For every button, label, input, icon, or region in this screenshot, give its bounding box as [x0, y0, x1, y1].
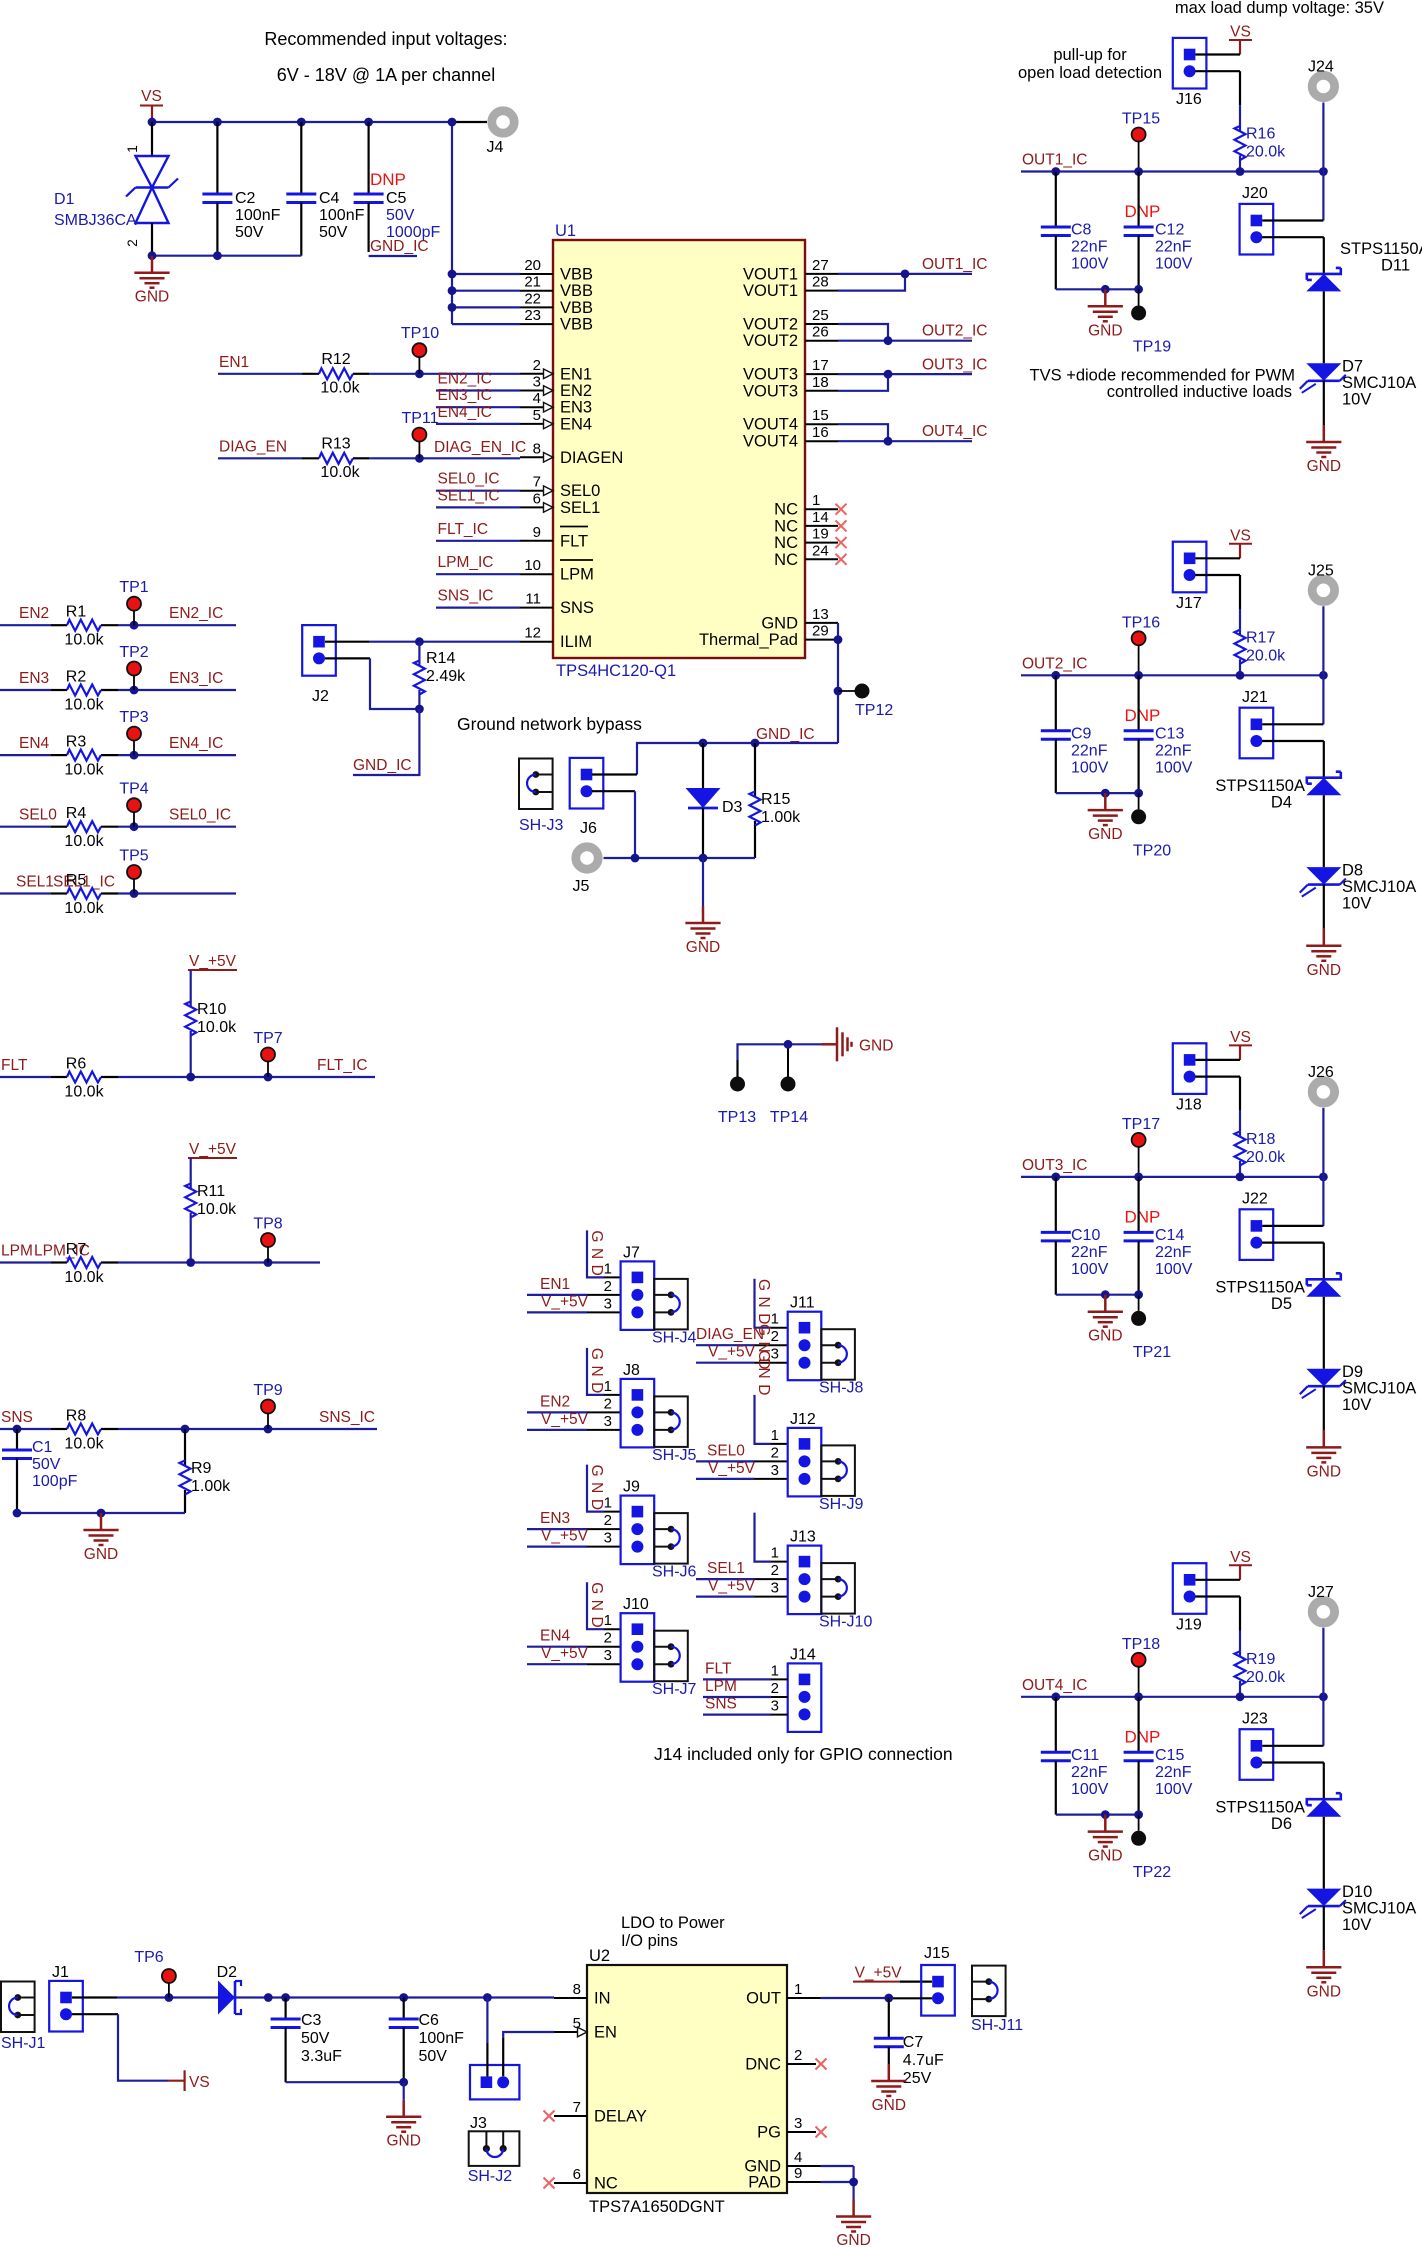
svg-text:10V: 10V: [1342, 391, 1371, 409]
U1 pin 18 VOUT3: [743, 374, 838, 401]
U1 pin 17 VOUT3: [743, 357, 838, 384]
svg-text:OUT1_IC: OUT1_IC: [922, 256, 987, 273]
svg-text:SEL0: SEL0: [19, 807, 57, 824]
annotation TVS diode recommendation: [1030, 367, 1295, 402]
power flag VS (J19): [1229, 1549, 1252, 1580]
svg-text:J5: J5: [573, 878, 590, 895]
svg-text:20.0k: 20.0k: [1246, 144, 1286, 161]
svg-text:FLT_IC: FLT_IC: [317, 1057, 368, 1074]
connector J3: [468, 2115, 520, 2185]
svg-text:D5: D5: [1271, 1295, 1292, 1313]
svg-text:TP11: TP11: [401, 410, 438, 427]
wire J20 pin2 to D11: [1262, 237, 1324, 274]
wire EN3 to J9 pin2: [527, 1528, 621, 1530]
wire net OUT3_IC: [1021, 1173, 1328, 1182]
svg-text:controlled inductive loads: controlled inductive loads: [1107, 383, 1292, 401]
connector J11: [771, 1295, 822, 1381]
svg-text:LPM: LPM: [1, 1243, 33, 1260]
svg-text:TP14: TP14: [770, 1109, 808, 1126]
capacitor C2: [202, 122, 280, 256]
svg-text:R9: R9: [191, 1460, 212, 1477]
wire J6 pin1: [592, 773, 637, 775]
svg-text:OUT3_IC: OUT3_IC: [1022, 1157, 1087, 1174]
svg-text:3: 3: [604, 1413, 612, 1430]
svg-text:J1: J1: [52, 1964, 69, 1981]
net label OUT3_IC: [1022, 1157, 1087, 1174]
shunt SH-J10: [819, 1563, 872, 1631]
svg-text:EN4_IC: EN4_IC: [438, 404, 492, 421]
svg-text:D11: D11: [1381, 257, 1410, 275]
svg-text:SEL0_IC: SEL0_IC: [438, 471, 500, 488]
test point TP8: [253, 1216, 282, 1263]
svg-text:EN3: EN3: [540, 1510, 570, 1527]
svg-text:TP15: TP15: [1122, 111, 1160, 128]
svg-text:13: 13: [812, 606, 829, 623]
svg-text:100V: 100V: [1071, 759, 1109, 776]
svg-text:GND: GND: [135, 289, 169, 306]
svg-text:NC: NC: [774, 551, 798, 569]
svg-text:V_+5V: V_+5V: [541, 1293, 589, 1310]
svg-text:22nF: 22nF: [1155, 1764, 1192, 1781]
ground GND (caps ch2): [1088, 793, 1123, 843]
svg-text:GND: GND: [1088, 1848, 1122, 1865]
wire SEL0 row: [0, 822, 236, 831]
diode D5 STPS1150A: [1215, 1273, 1341, 1313]
svg-text:FLT: FLT: [705, 1660, 732, 1677]
wire OUT to J15 pin2: [821, 1994, 933, 2003]
svg-text:DNP: DNP: [1125, 202, 1161, 221]
power label V_+5V (J8): [541, 1411, 589, 1428]
shunt SH-J1: [1, 1982, 46, 2053]
svg-text:VBB: VBB: [560, 266, 593, 284]
U1 pin 3 EN2: [520, 374, 592, 401]
svg-text:J27: J27: [1308, 1584, 1334, 1601]
wire net to J23 pin1: [1322, 1697, 1324, 1746]
U1 pin 10 LPM: [520, 557, 594, 584]
svg-text:1.00k: 1.00k: [191, 1478, 231, 1495]
svg-text:LDO to Power: LDO to Power: [621, 1914, 725, 1932]
svg-text:50V: 50V: [419, 2048, 448, 2065]
svg-text:PG: PG: [757, 2124, 781, 2142]
wire cap gnd bus ch3: [1056, 1290, 1143, 1299]
svg-text:VS: VS: [1230, 24, 1251, 41]
svg-text:J20: J20: [1242, 185, 1268, 202]
net label FLT_IC: [436, 521, 520, 541]
svg-text:GND: GND: [686, 939, 720, 956]
capacitor C5 (DNP): [354, 122, 441, 252]
wire GND to J8 pin1: [587, 1348, 621, 1395]
diode D10 SMCJ10A: [1300, 1883, 1416, 1934]
wire EN4 to J10 pin2: [527, 1646, 621, 1648]
no-connect X pin 24: [836, 554, 847, 565]
U1 pin 20 VBB: [520, 257, 593, 284]
svg-text:R17: R17: [1246, 629, 1275, 646]
svg-text:TP12: TP12: [855, 702, 893, 719]
annotation ground network bypass: [457, 714, 642, 734]
net label SEL1_IC: [436, 487, 520, 507]
svg-text:EN3: EN3: [19, 670, 49, 687]
test point TP14: [770, 1077, 808, 1127]
power flag VS (J17): [1229, 527, 1252, 558]
svg-text:C2: C2: [235, 190, 256, 207]
svg-text:100V: 100V: [1155, 1781, 1193, 1798]
wire SEL1 row: [0, 889, 236, 898]
wire V_+5V to J10 pin3: [527, 1663, 621, 1665]
svg-text:3: 3: [604, 1295, 612, 1312]
svg-text:3: 3: [771, 1462, 779, 1479]
svg-text:TP3: TP3: [119, 709, 148, 726]
net label GND (above J9): [588, 1465, 605, 1516]
resistor R15: [750, 743, 802, 858]
test point TP12: [838, 684, 893, 720]
wire D5 to D9: [1323, 1297, 1325, 1369]
svg-text:V_+5V: V_+5V: [541, 1528, 589, 1545]
svg-text:24: 24: [812, 542, 829, 559]
connector J6: [570, 758, 604, 837]
wire net OUT3_IC: [838, 370, 972, 391]
svg-text:SH-J5: SH-J5: [652, 1447, 697, 1464]
wire J1 pin2 to VS: [72, 2014, 185, 2081]
svg-text:TP4: TP4: [119, 781, 148, 798]
svg-text:SH-J8: SH-J8: [819, 1380, 864, 1397]
svg-text:IN: IN: [594, 1990, 611, 2008]
ground GND (ch3): [1306, 1430, 1341, 1480]
wire net OUT2_IC: [838, 324, 972, 345]
svg-text:GND: GND: [1307, 458, 1341, 475]
wire D7 to gnd: [1323, 381, 1325, 425]
connector J16: [1173, 38, 1207, 108]
wire EN2 row: [0, 621, 236, 630]
svg-text:D1: D1: [54, 191, 75, 208]
svg-text:R2: R2: [66, 669, 87, 686]
resistor R7: [64, 1241, 104, 1286]
U1 pin 4 EN3: [520, 390, 592, 417]
svg-text:C12: C12: [1155, 222, 1184, 239]
wire J1 pin1 to IN: [72, 1993, 554, 2002]
svg-text:J16: J16: [1176, 91, 1202, 108]
svg-text:V_+5V: V_+5V: [541, 1645, 589, 1662]
svg-text:2: 2: [771, 1562, 779, 1579]
svg-text:4: 4: [794, 2149, 802, 2166]
svg-text:R6: R6: [66, 1056, 87, 1073]
svg-text:1: 1: [771, 1545, 779, 1562]
svg-text:C1: C1: [32, 1439, 53, 1456]
connector J21: [1240, 689, 1274, 759]
svg-text:2: 2: [794, 2047, 802, 2064]
resistor R17: [1235, 629, 1287, 675]
svg-text:22nF: 22nF: [1071, 1764, 1108, 1781]
U1 pin 25 VOUT2: [743, 307, 838, 334]
svg-text:4.7uF: 4.7uF: [903, 2052, 944, 2069]
svg-text:DNP: DNP: [1125, 706, 1161, 725]
svg-text:NC: NC: [774, 501, 798, 519]
ground GND: [134, 256, 169, 306]
svg-text:3: 3: [771, 1580, 779, 1597]
svg-text:pull-up for: pull-up for: [1053, 46, 1127, 64]
capacitor C6: [389, 1998, 464, 2083]
annotation LDO to Power I/O pins: [621, 1914, 725, 1950]
capacitor C1: [2, 1429, 78, 1513]
svg-text:3: 3: [794, 2115, 802, 2132]
net label EN4_IC: [436, 404, 520, 424]
svg-text:SEL0: SEL0: [707, 1442, 745, 1459]
connector J23: [1240, 1710, 1274, 1779]
wire J22 pin1 lead: [1262, 1225, 1323, 1227]
svg-text:DIAG_EN: DIAG_EN: [696, 1326, 764, 1343]
ground GND (ch1): [1306, 425, 1341, 475]
svg-text:VBB: VBB: [560, 282, 593, 300]
svg-text:SH-J4: SH-J4: [652, 1329, 697, 1346]
wire LPM row: [0, 1258, 320, 1267]
svg-text:7: 7: [573, 2099, 581, 2116]
diode D3: [686, 743, 743, 858]
wire D11 to D7: [1323, 291, 1325, 363]
svg-text:VS: VS: [189, 2074, 210, 2091]
net label GND (above J8): [588, 1348, 605, 1399]
svg-text:2: 2: [604, 1395, 612, 1412]
svg-text:SH-J2: SH-J2: [468, 2168, 513, 2185]
svg-text:OUT: OUT: [746, 1990, 781, 2008]
svg-text:STPS1150A: STPS1150A: [1215, 777, 1305, 795]
net label EN3_IC: [436, 387, 520, 407]
wire EN3 row: [0, 686, 236, 695]
capacitor C15 (DNP): [1124, 1697, 1193, 1815]
net label EN2: [540, 1393, 570, 1410]
ground GND (C7): [871, 2064, 906, 2114]
net label EN2_IC: [169, 605, 223, 622]
power label V_+5V (J15): [853, 1965, 932, 1982]
svg-text:V_+5V: V_+5V: [189, 1141, 237, 1158]
svg-text:GND: GND: [1088, 322, 1122, 339]
svg-text:22nF: 22nF: [1071, 239, 1108, 256]
svg-text:SMBJ36CA: SMBJ36CA: [54, 212, 137, 229]
svg-text:GND: GND: [1307, 1983, 1341, 2000]
net label GND rotated (J11 area): [755, 1279, 772, 1401]
svg-text:NC: NC: [774, 517, 798, 535]
U1 pin 5 EN4: [520, 407, 592, 434]
svg-text:29: 29: [812, 623, 829, 640]
svg-text:GND: GND: [84, 1546, 118, 1563]
svg-text:D9: D9: [1342, 1363, 1363, 1381]
U1 pin 21 VBB: [520, 274, 593, 301]
ground GND (caps ch4): [1088, 1815, 1123, 1865]
capacitor C7: [874, 1998, 944, 2087]
wire SEL0 to J12 pin2: [696, 1460, 788, 1462]
svg-text:J15: J15: [924, 1945, 950, 1962]
svg-text:23: 23: [524, 307, 541, 324]
svg-text:OUT3_IC: OUT3_IC: [922, 357, 987, 374]
U1 pin 12 ILIM: [520, 625, 592, 652]
svg-text:EN4: EN4: [560, 415, 592, 433]
test point TP19: [1131, 289, 1171, 355]
test point TP3: [119, 709, 148, 755]
wire D4 to D8: [1323, 795, 1325, 867]
U1 pin 28 VOUT1: [743, 274, 838, 301]
resistor R19: [1235, 1651, 1287, 1697]
wire GND to J11 pin1: [755, 1279, 788, 1328]
svg-text:SMCJ10A: SMCJ10A: [1342, 1899, 1416, 1917]
wire C3/C6 gnd bus: [286, 2078, 409, 2100]
svg-text:J3: J3: [470, 2115, 487, 2132]
wire J2 pin2: [325, 658, 419, 709]
connector EN jumper: [470, 2065, 519, 2099]
wire J26 to net: [1322, 1108, 1324, 1177]
svg-text:OUT2_IC: OUT2_IC: [1022, 655, 1087, 672]
svg-text:C15: C15: [1155, 1747, 1184, 1764]
U1 pin 2 EN1: [520, 357, 592, 384]
test point TP16: [1122, 614, 1160, 675]
capacitor C10: [1041, 1177, 1109, 1295]
net label LPM_IC: [436, 554, 520, 574]
wire J20 pin1 lead: [1262, 219, 1323, 221]
svg-text:27: 27: [812, 257, 829, 274]
svg-text:EN1: EN1: [219, 354, 249, 371]
capacitor C8: [1041, 172, 1109, 290]
net label GND (above J10): [588, 1582, 605, 1633]
svg-text:SEL0_IC: SEL0_IC: [169, 807, 231, 824]
svg-text:OUT2_IC: OUT2_IC: [922, 323, 987, 340]
test point TP18: [1122, 1636, 1160, 1697]
connector J2: [302, 625, 336, 705]
svg-text:GND_IC: GND_IC: [756, 726, 815, 743]
svg-text:3: 3: [771, 1698, 779, 1715]
wire V_+5V to J13 pin3: [696, 1595, 788, 1597]
svg-text:C9: C9: [1071, 725, 1092, 742]
svg-text:7: 7: [533, 474, 541, 491]
svg-text:J17: J17: [1176, 595, 1202, 612]
ground GND (bypass): [685, 858, 720, 956]
svg-text:DIAG_EN_IC: DIAG_EN_IC: [434, 439, 526, 456]
test point TP7: [253, 1030, 282, 1077]
resistor R4: [64, 805, 104, 850]
svg-text:U1: U1: [555, 222, 576, 240]
ground GND (C3/C6): [386, 2100, 421, 2150]
wire J24 to net: [1322, 103, 1324, 172]
svg-text:D6: D6: [1271, 1815, 1292, 1833]
svg-text:10.0k: 10.0k: [64, 833, 104, 850]
wire J19 pin2 to R: [1195, 1597, 1240, 1652]
svg-text:SH-J11: SH-J11: [971, 2017, 1023, 2034]
resistor R9: [180, 1429, 232, 1513]
wire net OUT4_IC: [838, 424, 972, 445]
wire GND to J9 pin1: [587, 1465, 621, 1512]
capacitor C13 (DNP): [1124, 675, 1193, 793]
svg-text:R8: R8: [66, 1408, 87, 1425]
svg-text:10: 10: [524, 557, 541, 574]
net label SNS (J14): [703, 1696, 788, 1715]
no-connect X pin 1: [836, 504, 847, 515]
wire D9 to gnd: [1323, 1386, 1325, 1430]
ground GND (ch4): [1306, 1950, 1341, 2000]
svg-text:DELAY: DELAY: [594, 2108, 647, 2126]
svg-text:GND: GND: [588, 1582, 605, 1633]
U1 pin 29 Thermal_Pad: [699, 623, 838, 650]
svg-text:SEL0: SEL0: [560, 482, 600, 500]
wire net to J21 pin1: [1322, 675, 1324, 724]
wire cap gnd bus ch4: [1056, 1810, 1143, 1819]
power flag VS (J16): [1229, 24, 1252, 55]
svg-text:TP16: TP16: [1122, 614, 1160, 631]
svg-text:J8: J8: [623, 1362, 640, 1379]
annotation J14 GPIO: [654, 1744, 953, 1764]
diode D7 SMCJ10A: [1300, 358, 1416, 409]
connector J22: [1240, 1190, 1274, 1260]
svg-text:4: 4: [533, 390, 541, 407]
svg-text:100V: 100V: [1155, 1261, 1193, 1278]
test point TP22: [1131, 1815, 1171, 1881]
svg-text:10.0k: 10.0k: [320, 464, 360, 481]
connector J20: [1240, 185, 1274, 255]
wire EN1: [218, 369, 520, 378]
U2 pin 2 DNC: [745, 2047, 826, 2074]
svg-text:V_+5V: V_+5V: [541, 1411, 589, 1428]
svg-text:R11: R11: [197, 1183, 225, 1200]
svg-text:VS: VS: [1230, 527, 1251, 544]
connector J13: [771, 1529, 822, 1615]
wire SEL1 to J13 pin2: [696, 1578, 788, 1580]
svg-text:10.0k: 10.0k: [64, 697, 104, 714]
net label FLT_IC: [317, 1057, 368, 1074]
svg-text:VOUT2: VOUT2: [743, 332, 798, 350]
svg-text:V_+5V: V_+5V: [189, 953, 237, 970]
svg-text:D7: D7: [1342, 358, 1363, 376]
svg-text:2: 2: [125, 239, 140, 247]
test point TP1: [119, 579, 148, 625]
svg-text:C10: C10: [1071, 1227, 1100, 1244]
svg-text:1: 1: [604, 1612, 612, 1629]
svg-text:LPM_IC: LPM_IC: [438, 554, 494, 571]
svg-text:VS: VS: [1230, 1029, 1251, 1046]
svg-text:10.0k: 10.0k: [64, 762, 104, 779]
svg-text:16: 16: [812, 424, 829, 441]
test point TP15: [1122, 111, 1160, 172]
svg-text:GND: GND: [761, 614, 798, 632]
svg-text:2: 2: [604, 1278, 612, 1295]
svg-text:22nF: 22nF: [1071, 742, 1108, 759]
shunt SH-J4: [652, 1279, 697, 1347]
svg-text:2: 2: [771, 1444, 779, 1461]
power label V_+5V (J10): [541, 1645, 589, 1662]
wire V_+5V to J12 pin3: [696, 1478, 788, 1480]
ground GND (caps ch3): [1088, 1295, 1123, 1345]
annotation pull-up for open load detection: [1018, 46, 1162, 82]
connector J26: [1308, 1064, 1335, 1103]
svg-text:28: 28: [812, 274, 829, 291]
net label FLT: [1, 1057, 28, 1074]
power label V_+5V (FLT): [188, 953, 237, 970]
wire GND to J10 pin1: [587, 1582, 621, 1629]
wire J16 pin1 to VS: [1195, 53, 1240, 55]
svg-text:DNP: DNP: [1125, 1727, 1161, 1746]
svg-text:C6: C6: [419, 2012, 440, 2029]
U2 pin 5 EN: [554, 2015, 617, 2042]
connector J14: [771, 1646, 822, 1732]
resistor R10: [185, 970, 237, 1077]
net label EN1: [219, 354, 249, 371]
svg-text:8: 8: [573, 1981, 581, 1998]
U1 pin 22 VBB: [520, 290, 593, 317]
connector J9: [604, 1479, 655, 1565]
svg-text:R16: R16: [1246, 126, 1275, 143]
svg-text:EN1: EN1: [540, 1276, 570, 1293]
wire bypass bottom bus: [604, 854, 756, 863]
svg-text:TP1: TP1: [119, 579, 148, 596]
svg-text:Recommended input voltages:: Recommended input voltages:: [264, 29, 507, 49]
test point TP13: [718, 1077, 756, 1127]
power label VS (J1): [185, 2070, 210, 2091]
svg-text:J21: J21: [1242, 689, 1268, 706]
IC U2 TPS7A1650DGNT: [587, 1947, 787, 2216]
